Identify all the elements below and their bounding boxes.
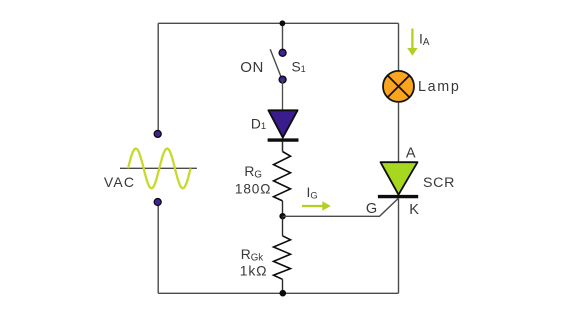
resistor RG zigzag body bbox=[274, 152, 291, 201]
junction: middle branch on bottom rail bbox=[280, 290, 287, 297]
current arrow IA (green, pointing down) bbox=[411, 29, 413, 49]
wire: lamp to SCR anode bbox=[398, 102, 400, 162]
VAC source axis line bbox=[120, 167, 197, 169]
svg-text:K: K bbox=[409, 202, 419, 218]
diode D1 cathode bar bbox=[268, 138, 299, 141]
svg-text:IG: IG bbox=[307, 185, 318, 200]
VAC + terminal (top purple dot) bbox=[154, 130, 161, 137]
junction: gate node between RG and RGk bbox=[279, 213, 285, 219]
svg-text:ON: ON bbox=[240, 59, 263, 76]
svg-text:RG: RG bbox=[244, 164, 262, 180]
wire: resistor RG to gate junction bbox=[282, 201, 284, 216]
svg-text:VAC: VAC bbox=[104, 174, 135, 190]
wire: gate junction to resistor RGk bbox=[282, 216, 284, 236]
diode D1 triangle (anode) bbox=[268, 110, 297, 137]
wire: SCR cathode to bottom rail bbox=[398, 198, 400, 293]
wire: left rail upper (top rail to VAC + terminal) bbox=[157, 23, 159, 134]
VAC sine waveform (two cycles, yellow-green) bbox=[128, 149, 191, 189]
svg-text:A: A bbox=[406, 145, 416, 161]
SCR cathode bar bbox=[378, 195, 418, 198]
svg-text:1kΩ: 1kΩ bbox=[240, 262, 268, 278]
wire: bottom rail bbox=[158, 292, 398, 294]
svg-text:G: G bbox=[366, 201, 377, 217]
current arrow IG (green, pointing right) bbox=[302, 205, 323, 207]
wire: gate node to SCR gate (horizontal then diagonal) bbox=[283, 198, 399, 216]
wire: resistor RGk to bottom rail bbox=[282, 279, 284, 293]
wire: top rail from left branch to right branch bbox=[158, 22, 398, 24]
wire: middle branch, top rail to switch S1 bbox=[282, 23, 284, 52]
resistor RGk zigzag body bbox=[274, 236, 291, 279]
switch S1 top contact bbox=[279, 49, 286, 56]
wire: right rail, top rail to lamp bbox=[398, 23, 400, 71]
switch S1 bottom contact bbox=[279, 76, 286, 83]
wire: left rail lower (VAC - terminal to bottom rail) bbox=[157, 202, 159, 293]
switch S1 blade (open) bbox=[270, 49, 281, 77]
svg-text:SCR: SCR bbox=[423, 175, 455, 191]
wire: diode D1 cathode to resistor RG bbox=[282, 142, 284, 152]
svg-text:180Ω: 180Ω bbox=[235, 182, 271, 197]
SCR U1 triangle (anode to cathode, green) bbox=[381, 162, 418, 195]
svg-text:RGk: RGk bbox=[241, 247, 264, 263]
VAC - terminal (bottom purple dot) bbox=[154, 199, 161, 206]
svg-text:IA: IA bbox=[419, 31, 430, 47]
svg-text:S1: S1 bbox=[292, 60, 306, 75]
lamp symbol (circle with X) bbox=[383, 71, 414, 102]
svg-text:Lamp: Lamp bbox=[418, 79, 461, 95]
wire: switch S1 to diode D1 anode bbox=[282, 79, 284, 110]
junction: middle branch on top rail bbox=[280, 20, 286, 26]
svg-text:D1: D1 bbox=[251, 117, 266, 133]
